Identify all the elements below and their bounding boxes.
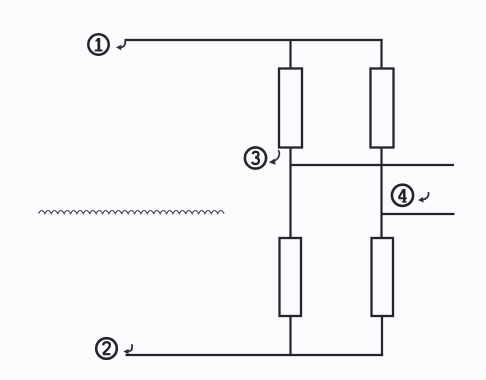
resistor R4 (bottom right) xyxy=(372,238,394,316)
wire: top horizontal rail from node 1 to right branch xyxy=(125,39,383,41)
wire: bottom horizontal rail from node 2 to right branch xyxy=(126,354,384,356)
wire: node 4 horizontal rail xyxy=(382,213,455,215)
node 2 terminal label xyxy=(96,338,117,359)
wire: drop from top rail to resistor R1 xyxy=(289,39,291,70)
wire: node 3 horizontal rail xyxy=(291,164,455,166)
wire: R1 bottom through node 3 rail down to R3 xyxy=(289,147,291,240)
wire: drop from top rail corner to resistor R2 xyxy=(380,39,382,70)
resistor R2 (top right) xyxy=(371,69,394,148)
wire: R4 bottom to bottom rail xyxy=(381,315,383,356)
line-break mark at node 3 xyxy=(269,150,280,165)
line-break mark at node 4 xyxy=(418,192,429,203)
wire: R2 bottom through node 3 rail and node 4 rail down to R4 xyxy=(380,147,382,240)
wire: R3 bottom to bottom rail xyxy=(289,315,291,356)
line-break mark at node 1 xyxy=(116,41,125,51)
node 3 terminal label xyxy=(245,147,266,168)
wavy divider line xyxy=(39,211,225,214)
node 4 terminal label xyxy=(392,185,413,206)
line-break mark at node 2 xyxy=(123,344,132,354)
node 1 terminal label xyxy=(88,34,108,54)
resistor R1 (top left) xyxy=(279,69,302,148)
resistor R3 (bottom left) xyxy=(280,238,302,316)
